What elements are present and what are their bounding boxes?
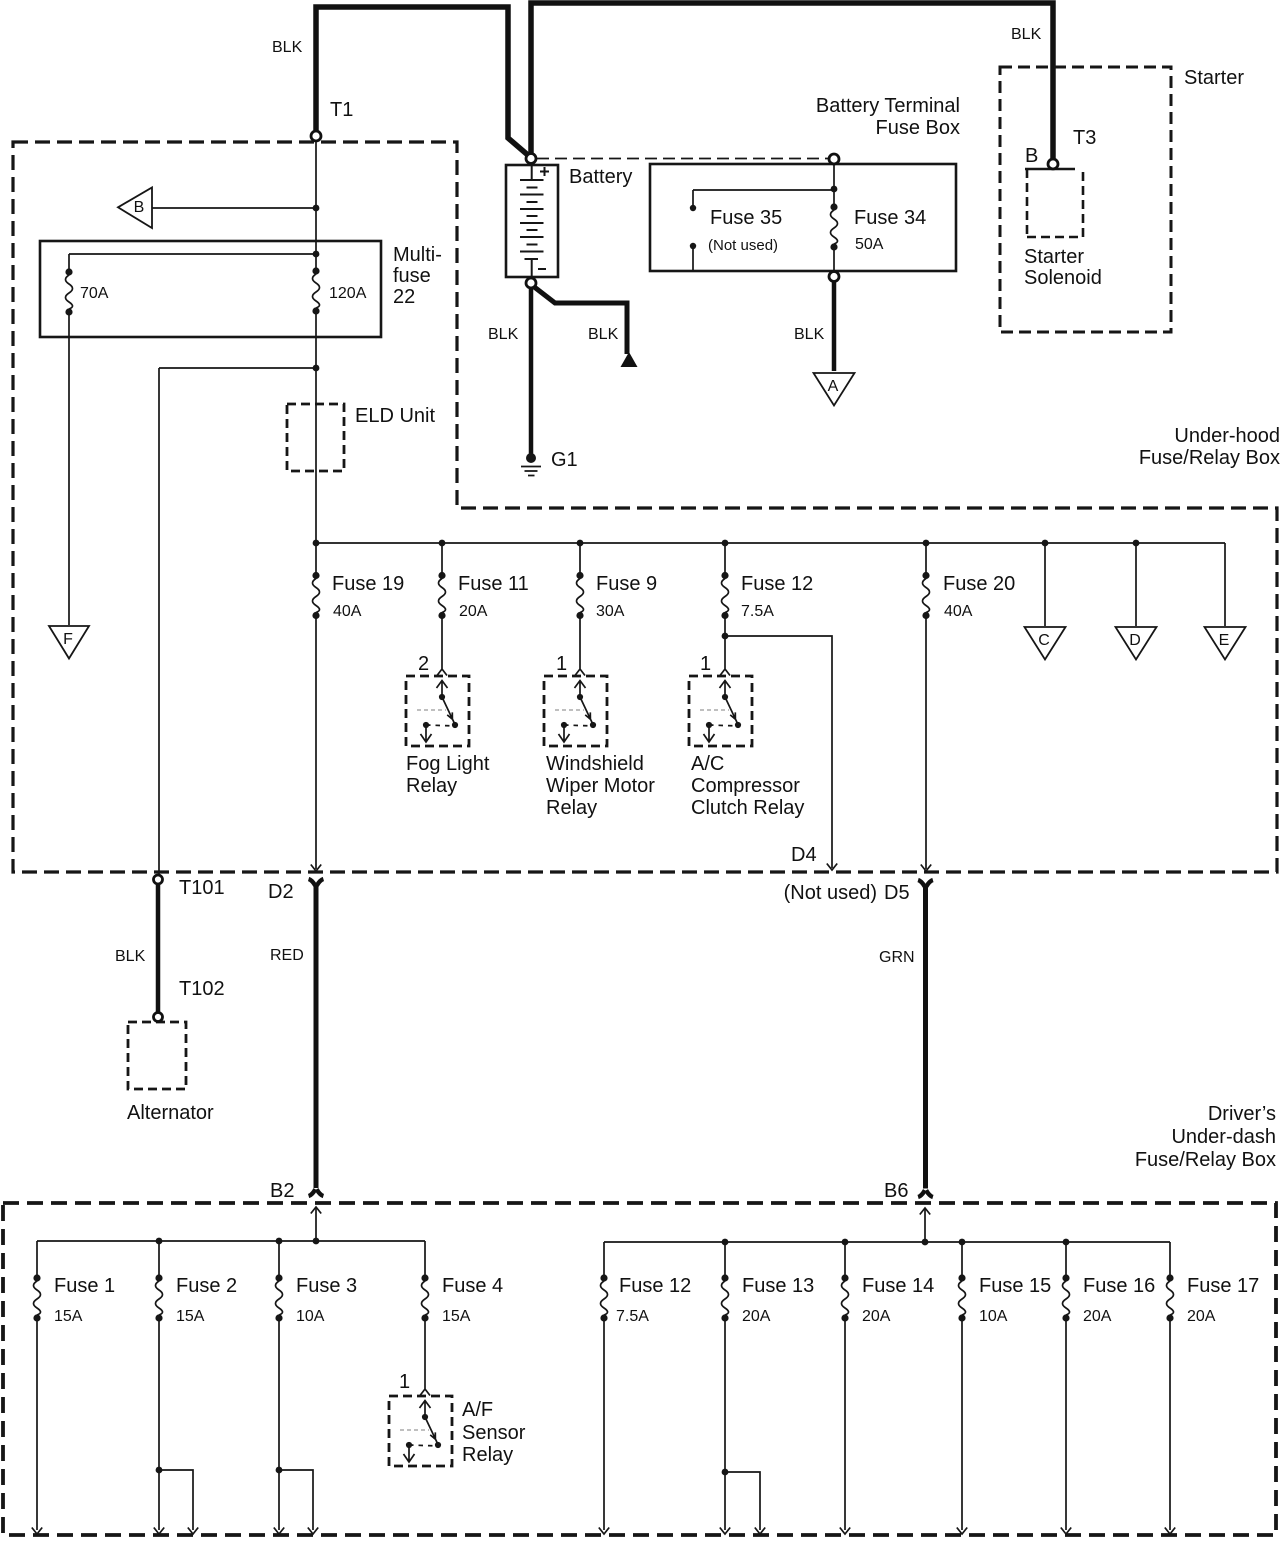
svg-text:Fuse/Relay Box: Fuse/Relay Box bbox=[1135, 1149, 1276, 1171]
svg-text:BLK: BLK bbox=[794, 326, 825, 343]
svg-text:D: D bbox=[1129, 632, 1141, 649]
svg-text:50A: 50A bbox=[855, 236, 884, 253]
svg-text:Starter: Starter bbox=[1024, 246, 1084, 268]
svg-text:D4: D4 bbox=[791, 844, 817, 866]
svg-text:Wiper Motor: Wiper Motor bbox=[546, 775, 655, 797]
svg-text:Fuse 9: Fuse 9 bbox=[596, 573, 657, 595]
svg-text:Clutch Relay: Clutch Relay bbox=[691, 797, 804, 819]
svg-text:ELD Unit: ELD Unit bbox=[355, 405, 435, 427]
svg-text:Under-dash: Under-dash bbox=[1171, 1126, 1276, 1148]
svg-text:Fuse 17: Fuse 17 bbox=[1187, 1275, 1259, 1297]
svg-text:T101: T101 bbox=[179, 877, 225, 899]
svg-text:Windshield: Windshield bbox=[546, 753, 644, 775]
svg-text:120A: 120A bbox=[329, 285, 367, 302]
svg-text:40A: 40A bbox=[944, 603, 973, 620]
svg-text:Fuse 1: Fuse 1 bbox=[54, 1275, 115, 1297]
svg-text:Relay: Relay bbox=[406, 775, 457, 797]
svg-text:T102: T102 bbox=[179, 978, 225, 1000]
svg-text:22: 22 bbox=[393, 286, 415, 308]
svg-text:(Not used): (Not used) bbox=[708, 237, 778, 254]
svg-text:Starter: Starter bbox=[1184, 67, 1244, 89]
svg-text:Fuse 12: Fuse 12 bbox=[741, 573, 813, 595]
svg-text:20A: 20A bbox=[862, 1308, 891, 1325]
svg-text:F: F bbox=[63, 631, 73, 648]
svg-text:Alternator: Alternator bbox=[127, 1102, 214, 1124]
svg-text:Multi-: Multi- bbox=[393, 244, 442, 266]
svg-text:BLK: BLK bbox=[115, 948, 146, 965]
svg-text:BLK: BLK bbox=[1011, 26, 1042, 43]
svg-text:10A: 10A bbox=[979, 1308, 1008, 1325]
svg-text:A/F: A/F bbox=[462, 1399, 493, 1421]
svg-text:Compressor: Compressor bbox=[691, 775, 800, 797]
svg-text:Fog Light: Fog Light bbox=[406, 753, 490, 775]
svg-text:D5: D5 bbox=[884, 882, 910, 904]
svg-text:1: 1 bbox=[556, 653, 567, 675]
svg-text:20A: 20A bbox=[742, 1308, 771, 1325]
svg-text:15A: 15A bbox=[442, 1308, 471, 1325]
svg-text:20A: 20A bbox=[1083, 1308, 1112, 1325]
svg-text:Fuse 35: Fuse 35 bbox=[710, 207, 782, 229]
svg-text:RED: RED bbox=[270, 947, 304, 964]
svg-text:1: 1 bbox=[700, 653, 711, 675]
svg-text:Under-hood: Under-hood bbox=[1174, 425, 1280, 447]
svg-text:Sensor: Sensor bbox=[462, 1422, 526, 1444]
svg-text:G1: G1 bbox=[551, 449, 578, 471]
svg-text:B: B bbox=[134, 199, 145, 216]
svg-text:Battery: Battery bbox=[569, 166, 632, 188]
svg-text:7.5A: 7.5A bbox=[616, 1308, 649, 1325]
svg-text:15A: 15A bbox=[54, 1308, 83, 1325]
svg-text:B6: B6 bbox=[884, 1180, 908, 1202]
svg-text:Relay: Relay bbox=[546, 797, 597, 819]
svg-text:D2: D2 bbox=[268, 881, 294, 903]
svg-text:Fuse 3: Fuse 3 bbox=[296, 1275, 357, 1297]
svg-text:Battery Terminal: Battery Terminal bbox=[816, 95, 960, 117]
svg-text:Fuse 19: Fuse 19 bbox=[332, 573, 404, 595]
svg-text:30A: 30A bbox=[596, 603, 625, 620]
svg-text:1: 1 bbox=[399, 1371, 410, 1393]
svg-text:Fuse 15: Fuse 15 bbox=[979, 1275, 1051, 1297]
svg-text:fuse: fuse bbox=[393, 265, 431, 287]
svg-text:Fuse Box: Fuse Box bbox=[876, 117, 960, 139]
svg-text:A/C: A/C bbox=[691, 753, 724, 775]
svg-text:15A: 15A bbox=[176, 1308, 205, 1325]
svg-text:A: A bbox=[828, 378, 839, 395]
svg-text:GRN: GRN bbox=[879, 949, 915, 966]
svg-text:Solenoid: Solenoid bbox=[1024, 267, 1102, 289]
svg-text:BLK: BLK bbox=[272, 39, 303, 56]
svg-text:Fuse 2: Fuse 2 bbox=[176, 1275, 237, 1297]
svg-text:Fuse 34: Fuse 34 bbox=[854, 207, 926, 229]
svg-text:10A: 10A bbox=[296, 1308, 325, 1325]
svg-text:E: E bbox=[1219, 632, 1230, 649]
svg-text:Relay: Relay bbox=[462, 1444, 513, 1466]
svg-text:Fuse 20: Fuse 20 bbox=[943, 573, 1015, 595]
svg-text:B: B bbox=[1025, 145, 1038, 167]
svg-text:40A: 40A bbox=[333, 603, 362, 620]
svg-text:Fuse 13: Fuse 13 bbox=[742, 1275, 814, 1297]
svg-text:BLK: BLK bbox=[588, 326, 619, 343]
svg-text:Fuse 11: Fuse 11 bbox=[458, 573, 529, 595]
svg-text:Fuse/Relay Box: Fuse/Relay Box bbox=[1139, 447, 1280, 469]
svg-text:70A: 70A bbox=[80, 285, 109, 302]
svg-text:B2: B2 bbox=[270, 1180, 294, 1202]
svg-text:Fuse 16: Fuse 16 bbox=[1083, 1275, 1155, 1297]
svg-text:Driver’s: Driver’s bbox=[1208, 1103, 1276, 1125]
svg-text:20A: 20A bbox=[459, 603, 488, 620]
svg-text:T3: T3 bbox=[1073, 127, 1096, 149]
svg-text:(Not used): (Not used) bbox=[784, 882, 877, 904]
svg-text:Fuse 14: Fuse 14 bbox=[862, 1275, 934, 1297]
svg-text:T1: T1 bbox=[330, 99, 353, 121]
svg-text:Fuse 12: Fuse 12 bbox=[619, 1275, 691, 1297]
svg-text:BLK: BLK bbox=[488, 326, 519, 343]
svg-text:2: 2 bbox=[418, 653, 429, 675]
svg-text:C: C bbox=[1038, 632, 1050, 649]
svg-text:20A: 20A bbox=[1187, 1308, 1216, 1325]
svg-text:7.5A: 7.5A bbox=[741, 603, 774, 620]
svg-text:Fuse 4: Fuse 4 bbox=[442, 1275, 503, 1297]
